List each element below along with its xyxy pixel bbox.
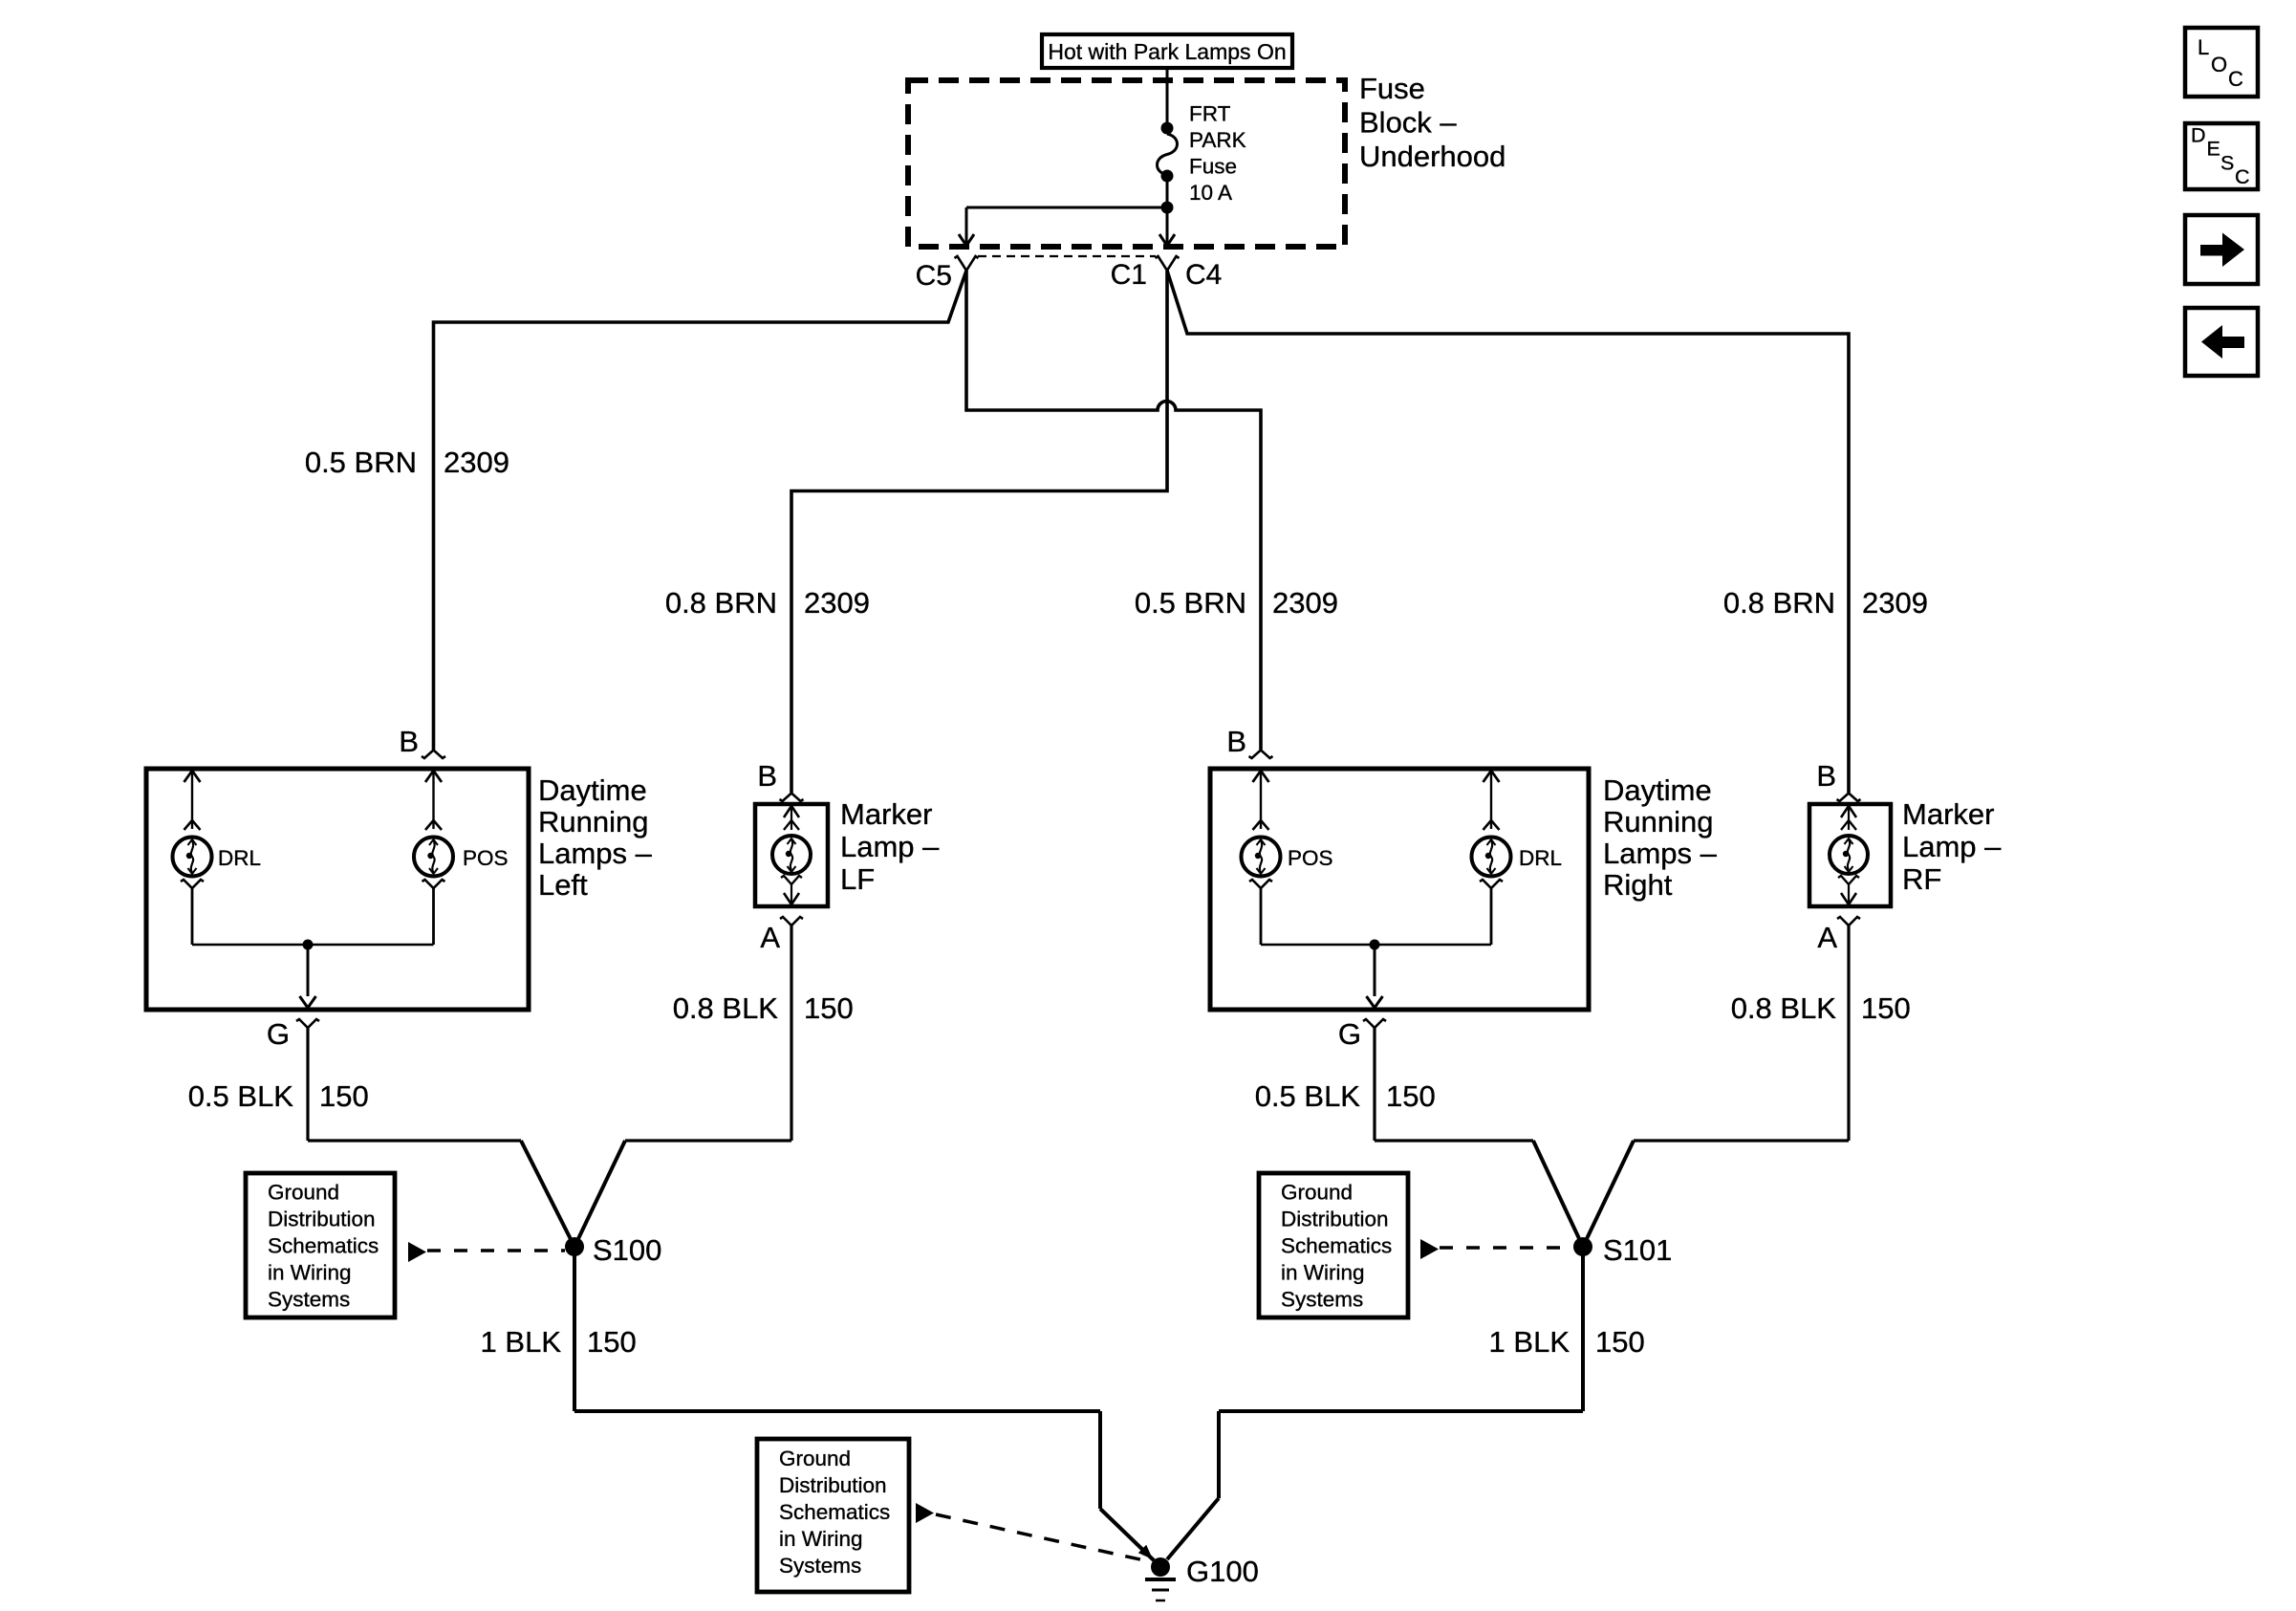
- svg-text:Block –: Block –: [1359, 106, 1457, 140]
- svg-text:G: G: [267, 1017, 290, 1051]
- svg-text:Distribution: Distribution: [268, 1208, 376, 1231]
- svg-text:in Wiring: in Wiring: [1281, 1261, 1365, 1285]
- svg-text:150: 150: [1595, 1325, 1645, 1359]
- svg-text:Ground: Ground: [268, 1181, 339, 1205]
- svg-text:C: C: [2235, 165, 2250, 188]
- svg-text:150: 150: [1861, 991, 1911, 1025]
- svg-text:Running: Running: [538, 805, 648, 838]
- svg-text:2309: 2309: [444, 446, 509, 479]
- svg-text:2309: 2309: [1272, 586, 1338, 620]
- svg-text:2309: 2309: [804, 586, 870, 620]
- svg-text:A: A: [1817, 921, 1837, 954]
- svg-text:Daytime: Daytime: [538, 773, 647, 807]
- svg-text:Right: Right: [1603, 868, 1673, 902]
- svg-text:Fuse: Fuse: [1189, 155, 1237, 179]
- svg-text:Distribution: Distribution: [779, 1473, 887, 1497]
- svg-text:B: B: [1816, 759, 1836, 793]
- svg-text:150: 150: [587, 1325, 637, 1359]
- svg-text:0.5 BRN: 0.5 BRN: [1135, 586, 1246, 620]
- svg-text:POS: POS: [1288, 846, 1333, 870]
- svg-text:Daytime: Daytime: [1603, 773, 1712, 807]
- svg-text:0.8 BRN: 0.8 BRN: [1723, 586, 1835, 620]
- svg-text:Schematics: Schematics: [268, 1234, 379, 1258]
- svg-text:Fuse: Fuse: [1359, 72, 1425, 105]
- svg-text:0.8 BRN: 0.8 BRN: [665, 586, 777, 620]
- svg-text:Marker: Marker: [1902, 797, 1994, 831]
- svg-text:B: B: [757, 759, 777, 793]
- svg-text:Running: Running: [1603, 805, 1713, 838]
- svg-text:Marker: Marker: [840, 797, 932, 831]
- svg-text:Lamps –: Lamps –: [1603, 837, 1718, 870]
- svg-text:Ground: Ground: [1281, 1181, 1353, 1205]
- svg-text:Lamp –: Lamp –: [1902, 830, 2002, 863]
- svg-text:G100: G100: [1186, 1555, 1259, 1588]
- svg-text:0.8 BLK: 0.8 BLK: [1731, 991, 1837, 1025]
- svg-text:0.5 BLK: 0.5 BLK: [1255, 1079, 1361, 1113]
- svg-text:S101: S101: [1603, 1233, 1672, 1267]
- svg-text:C4: C4: [1185, 259, 1222, 291]
- svg-text:Underhood: Underhood: [1359, 140, 1505, 173]
- svg-text:S: S: [2220, 152, 2234, 175]
- svg-text:D: D: [2191, 124, 2206, 147]
- svg-text:Schematics: Schematics: [1281, 1234, 1392, 1258]
- svg-text:0.8 BLK: 0.8 BLK: [673, 991, 779, 1025]
- svg-text:Schematics: Schematics: [779, 1500, 890, 1524]
- svg-text:C5: C5: [916, 260, 952, 292]
- svg-text:DRL: DRL: [1519, 846, 1562, 870]
- svg-text:Systems: Systems: [1281, 1288, 1363, 1312]
- svg-text:O: O: [2211, 53, 2227, 76]
- svg-text:L: L: [2198, 35, 2209, 59]
- svg-text:Ground: Ground: [779, 1447, 851, 1470]
- svg-text:B: B: [399, 725, 419, 758]
- svg-text:1 BLK: 1 BLK: [1489, 1325, 1570, 1359]
- svg-text:0.5 BRN: 0.5 BRN: [305, 446, 417, 479]
- svg-text:A: A: [760, 921, 780, 954]
- svg-text:LF: LF: [840, 862, 875, 896]
- svg-text:10 A: 10 A: [1189, 181, 1232, 205]
- svg-text:in Wiring: in Wiring: [779, 1527, 863, 1551]
- svg-text:in Wiring: in Wiring: [268, 1261, 352, 1285]
- svg-text:2309: 2309: [1862, 586, 1928, 620]
- svg-text:FRT: FRT: [1189, 102, 1231, 126]
- svg-text:PARK: PARK: [1189, 128, 1246, 152]
- svg-text:C: C: [2228, 67, 2243, 91]
- svg-text:E: E: [2207, 138, 2220, 161]
- svg-text:Lamp –: Lamp –: [840, 830, 940, 863]
- svg-text:POS: POS: [463, 846, 509, 870]
- svg-text:RF: RF: [1902, 862, 1941, 896]
- svg-text:Systems: Systems: [779, 1554, 861, 1578]
- svg-text:S100: S100: [593, 1233, 661, 1267]
- svg-text:DRL: DRL: [218, 846, 261, 870]
- svg-text:B: B: [1226, 725, 1246, 758]
- svg-text:Distribution: Distribution: [1281, 1208, 1389, 1231]
- svg-text:Left: Left: [538, 868, 588, 902]
- svg-text:0.5 BLK: 0.5 BLK: [188, 1079, 294, 1113]
- svg-text:1 BLK: 1 BLK: [481, 1325, 562, 1359]
- svg-text:C1: C1: [1111, 259, 1147, 291]
- svg-text:Lamps –: Lamps –: [538, 837, 653, 870]
- svg-text:150: 150: [1386, 1079, 1436, 1113]
- svg-text:150: 150: [319, 1079, 369, 1113]
- svg-text:Hot with Park Lamps On: Hot with Park Lamps On: [1048, 39, 1286, 64]
- svg-text:150: 150: [804, 991, 854, 1025]
- svg-text:G: G: [1338, 1017, 1361, 1051]
- svg-text:Systems: Systems: [268, 1288, 350, 1312]
